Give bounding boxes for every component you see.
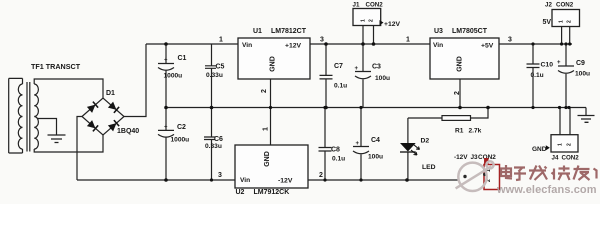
svg-text:1: 1 [559, 20, 565, 23]
wire U3 pin2 to gnd rail [459, 79, 461, 108]
capacitor C1 [158, 44, 174, 108]
resistor R1 [408, 108, 488, 119]
connector J4 CON2 [551, 135, 578, 152]
watermark red text [501, 165, 597, 180]
svg-text:R1: R1 [455, 128, 464, 135]
svg-text:CON2: CON2 [366, 1, 384, 8]
capacitor C9 [558, 44, 574, 108]
svg-text:U2: U2 [236, 189, 245, 196]
LED arrows [411, 145, 420, 156]
svg-text:-12V: -12V [454, 154, 468, 161]
svg-text:www.elecfans.com: www.elecfans.com [496, 184, 597, 196]
wire U2 pin1 to gnd rail [270, 108, 272, 146]
svg-text:C3: C3 [372, 64, 381, 71]
capacitor C10 [527, 44, 540, 108]
wire J4 leads [560, 108, 570, 135]
svg-text:100u: 100u [368, 154, 383, 161]
svg-text:2: 2 [369, 19, 375, 22]
svg-text:1000u: 1000u [171, 137, 190, 144]
wire bridge minus to bottom rail [77, 117, 82, 181]
svg-text:C7: C7 [334, 63, 343, 70]
svg-text:1: 1 [558, 143, 564, 146]
svg-text:0.1u: 0.1u [332, 156, 345, 163]
wire bridge plus to top rail [124, 44, 146, 117]
svg-text:1: 1 [361, 19, 367, 22]
svg-text:U1: U1 [253, 28, 262, 35]
wire mid rail (GND) [166, 107, 586, 109]
svg-text:2: 2 [261, 89, 268, 93]
junction dots on watermark circle [463, 175, 466, 178]
svg-text:0.33u: 0.33u [205, 143, 222, 150]
ground (right, +5V section) [585, 108, 587, 116]
svg-text:CON2: CON2 [562, 154, 580, 161]
svg-text:+: + [356, 141, 360, 147]
wire center tap [37, 119, 57, 136]
svg-text:+5V: +5V [481, 43, 494, 50]
connector J1 CON2 [353, 9, 381, 26]
svg-text:+: + [355, 66, 359, 72]
svg-text:+: + [164, 124, 168, 130]
LED D2 [407, 118, 409, 143]
wire bottom rail left (-V) [77, 179, 235, 181]
svg-text:1: 1 [263, 127, 270, 131]
wire bottom rail right (-12V) [308, 179, 458, 181]
svg-text:J4: J4 [552, 154, 559, 161]
capacitor C8 [319, 108, 332, 181]
wire J2 leads [562, 27, 570, 45]
svg-text:+: + [164, 58, 168, 64]
diode in bridge top-right [108, 102, 119, 113]
svg-text:0.33u: 0.33u [206, 72, 223, 79]
capacitor C5 [205, 44, 216, 108]
svg-text:100u: 100u [375, 75, 390, 82]
svg-text:100u: 100u [575, 71, 590, 78]
svg-text:3: 3 [320, 37, 324, 44]
svg-text:LM7912CK: LM7912CK [254, 189, 290, 196]
svg-text:Vin: Vin [240, 177, 250, 184]
wire J1 leads [363, 26, 374, 45]
svg-text:-12V: -12V [278, 178, 293, 185]
svg-text:C4: C4 [371, 137, 380, 144]
diode in bridge bottom-right [108, 120, 119, 131]
svg-text:3: 3 [508, 37, 512, 44]
svg-text:C1: C1 [178, 55, 187, 62]
bridge rectifier D1 [82, 98, 124, 135]
regulator U3 LM7805CT [430, 38, 499, 79]
svg-text:J2: J2 [545, 1, 552, 8]
svg-text:+12V: +12V [285, 43, 302, 50]
connector J3 CON2 (red) [484, 165, 500, 190]
diode in bridge top-left [87, 102, 98, 113]
svg-text:0.1u: 0.1u [531, 72, 544, 79]
svg-text:TF1 TRANSCT: TF1 TRANSCT [31, 62, 81, 71]
diode in bridge bottom-left [87, 120, 98, 131]
svg-text:2: 2 [567, 143, 573, 146]
svg-text:C8: C8 [331, 147, 340, 154]
capacitor C6 [204, 108, 215, 181]
transformer TF1 [9, 78, 39, 153]
svg-text:+12V: +12V [384, 21, 401, 28]
svg-text:C5: C5 [216, 64, 225, 71]
svg-text:C9: C9 [576, 60, 585, 67]
wire secondary bottom to bridge [34, 135, 103, 152]
svg-text:2.7k: 2.7k [469, 128, 482, 135]
svg-text:0.1u: 0.1u [334, 83, 347, 90]
wire top rail left [146, 43, 238, 45]
svg-text:Vin: Vin [242, 42, 252, 49]
svg-text:5V: 5V [543, 19, 552, 26]
svg-text:J3: J3 [471, 154, 479, 161]
wire top rail right (+5V) [499, 43, 572, 45]
connector J2 CON2 [552, 10, 580, 27]
svg-text:1BQ40: 1BQ40 [117, 128, 139, 135]
svg-text:Vin: Vin [433, 42, 443, 49]
svg-text:+: + [557, 60, 561, 66]
svg-text:GND: GND [270, 56, 277, 72]
svg-text:CON2: CON2 [556, 1, 574, 8]
wire secondary top to bridge [34, 79, 103, 98]
svg-text:U3: U3 [434, 28, 443, 35]
svg-text:GND: GND [264, 151, 271, 167]
capacitor C3 [355, 44, 371, 108]
svg-text:1000u: 1000u [164, 73, 183, 80]
svg-text:3: 3 [218, 172, 222, 179]
svg-text:C6: C6 [214, 136, 223, 143]
svg-text:D2: D2 [421, 137, 430, 144]
svg-text:C10: C10 [541, 62, 554, 69]
power port +12V [380, 20, 384, 25]
svg-text:1: 1 [219, 37, 223, 44]
svg-text:LM7812CT: LM7812CT [271, 28, 307, 35]
svg-text:2: 2 [319, 172, 323, 179]
regulator U2 LM7912CK [235, 145, 308, 188]
svg-text:GND: GND [532, 146, 547, 153]
svg-text:2: 2 [567, 20, 573, 23]
ground (center tap) [48, 135, 66, 143]
regulator U1 LM7812CT [238, 38, 310, 79]
capacitor C4 [353, 108, 369, 181]
capacitor C7 [320, 44, 333, 108]
wire U1 pin2 to gnd rail [270, 79, 272, 108]
wire top rail mid (+12V) [310, 43, 430, 45]
svg-text:C2: C2 [177, 124, 186, 131]
svg-text:GND: GND [457, 56, 464, 72]
svg-text:1: 1 [406, 37, 410, 44]
svg-text:D1: D1 [106, 90, 115, 97]
svg-text:LED: LED [422, 164, 436, 171]
watermark gray logo [456, 161, 494, 191]
svg-text:LM7805CT: LM7805CT [452, 28, 488, 35]
capacitor C2 [158, 108, 174, 181]
svg-text:J1: J1 [353, 1, 360, 8]
